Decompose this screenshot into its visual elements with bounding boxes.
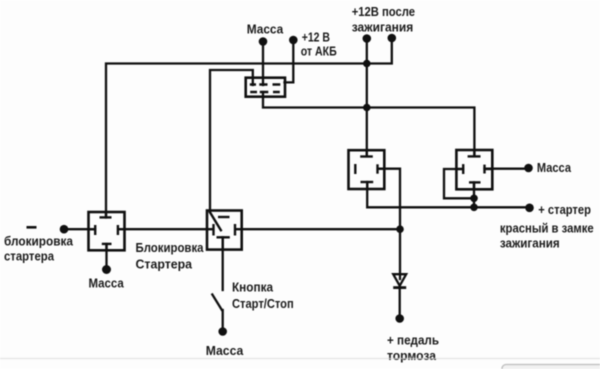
button Кнопка Старт/Стоп lever (212, 295, 222, 311)
svg-text:зажигания: зажигания (352, 19, 414, 34)
terminal dot Масса (button) (218, 327, 227, 336)
wire relay K1 coil bottom to Масса terminal (105, 244, 107, 266)
terminal dot + педаль тормоза (395, 314, 404, 323)
wire relay U2 coil bottom stem through J4 J5 (473, 182, 475, 207)
svg-text:Блокировка: Блокировка (136, 240, 205, 255)
wire connector bottom pin to bus y=107.5 and over to relay U2 coil (263, 92, 474, 156)
terminal dot +12В после зажигания left (363, 34, 372, 43)
svg-text:стартера: стартера (4, 249, 55, 264)
wire from Масса terminal down into connector top-middle pin (262, 42, 264, 86)
terminal dot Масса (top) (259, 37, 268, 46)
junction node J2 (363, 104, 371, 112)
connector X1 pin dashes (250, 85, 280, 93)
svg-text:блокировка: блокировка (4, 234, 74, 249)
terminal dot Масса (relay K1) (102, 265, 111, 274)
wire relay U2 right contact to Масса terminal (485, 168, 529, 170)
wire top horizontal bus with left riser to relay K1 (106, 64, 367, 218)
svg-text:+12В после: +12В после (352, 4, 415, 19)
terminal dot +12В от АКБ (289, 36, 298, 45)
svg-text:Масса: Масса (89, 275, 125, 290)
terminal dot +12В после зажигания right (388, 34, 397, 43)
wire +12В после зажигания left terminal drop (366, 39, 368, 64)
relay U2 internal pins (456, 150, 492, 189)
bottom faint fold line (0, 358, 600, 360)
junction node J5 (470, 204, 478, 212)
junction node J4 (470, 195, 478, 203)
wire switch S1 right contact to node J3 (242, 228, 400, 230)
relay K1 internal pins (89, 212, 125, 250)
wire switch S1 bottom pin down to button (222, 237, 224, 290)
relay U2 body (456, 150, 492, 189)
wire relay U2 left contact loop to coil bottom node J4 (444, 169, 474, 198)
terminal dot + стартер (525, 204, 534, 213)
svg-text:Стартера: Стартера (136, 256, 193, 271)
relay U1 internal pins (355, 150, 384, 189)
svg-text:Старт/Стоп: Старт/Стоп (232, 296, 294, 311)
wire +12В после зажигания right terminal drop (368, 38, 392, 64)
wire diode cathode to brake pedal terminal (399, 286, 401, 315)
svg-text:Масса: Масса (206, 343, 244, 358)
svg-text:Масса: Масса (247, 21, 284, 36)
wire second riser from switch S1 top to connector pin (210, 70, 253, 212)
svg-text:от АКБ: от АКБ (301, 43, 337, 58)
connector X1 body (246, 78, 285, 97)
svg-text:+ стартер: + стартер (538, 202, 591, 217)
wire main vertical from node J1 through J2 to relay U1 coil (366, 64, 368, 157)
svg-text:тормоза: тормоза (387, 348, 437, 363)
relay K1 body (starter blocking relay) (89, 212, 125, 250)
wire relay U1 contact to diode branch vertical (379, 169, 401, 279)
relay U1 body (349, 150, 385, 189)
junction node J3 (396, 225, 404, 233)
bottom right grey card edge (502, 365, 600, 369)
switch S1 body (Блокировка Стартера) (207, 211, 242, 250)
junction node J1 (363, 60, 371, 68)
svg-text:Кнопка: Кнопка (232, 280, 274, 295)
terminal dot блокировка стартера (60, 225, 69, 234)
minus sign above блокировка label (27, 226, 37, 229)
svg-text:Масса: Масса (537, 160, 572, 175)
diode VD1 (393, 274, 406, 287)
svg-text:зажигания: зажигания (500, 236, 560, 251)
wire from +12В от АКБ terminal to connector right side (285, 40, 294, 82)
wire relay U1 coil bottom down then right to starter line (367, 182, 529, 207)
svg-text:красный в замке: красный в замке (500, 221, 594, 236)
switch S1 internal contacts and lever (207, 212, 242, 250)
wire button to Масса terminal (222, 310, 224, 328)
svg-text:+ педаль: + педаль (387, 332, 439, 347)
wire from blocking terminal into relay K1 left contact (64, 228, 95, 230)
wire relay K1 right contact to switch S1 (125, 228, 208, 230)
terminal dot Масса (relay U2) (524, 164, 533, 173)
